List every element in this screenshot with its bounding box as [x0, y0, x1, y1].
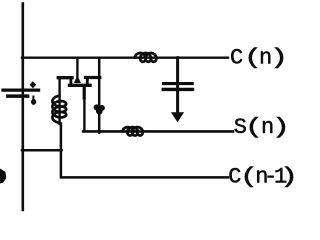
svg-text:): ): [280, 165, 298, 190]
svg-text:): ): [272, 116, 290, 141]
svg-text:(: (: [245, 116, 263, 141]
svg-text:(: (: [244, 46, 262, 71]
svg-text:(: (: [240, 165, 258, 190]
svg-text:): ): [270, 46, 288, 71]
